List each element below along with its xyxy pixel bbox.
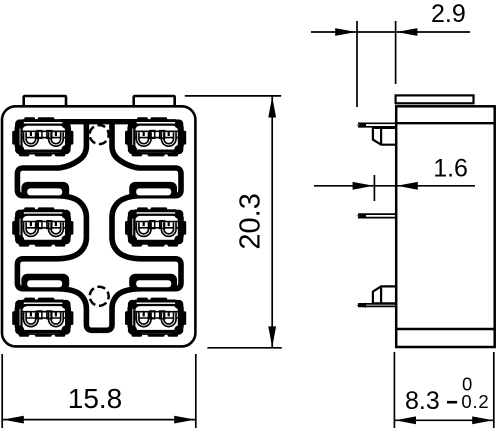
dim line vertical <box>271 97 273 348</box>
svg-text:2.9: 2.9 <box>431 0 466 28</box>
bottom pin boss inner line <box>380 286 382 303</box>
top pin <box>358 123 396 127</box>
ext line B (body face) <box>395 21 397 84</box>
right arrow <box>397 182 418 190</box>
top pin tip <box>356 123 366 128</box>
top pin boss inner line <box>380 128 382 145</box>
bottom pin tip <box>356 303 366 308</box>
top pin boss <box>373 128 396 145</box>
left tail <box>314 185 374 187</box>
ext line left <box>393 352 395 428</box>
middle pin <box>358 214 396 218</box>
arrow down <box>268 326 276 347</box>
dashed circle bottom <box>90 287 109 306</box>
slot bar gap1 left <box>21 182 69 199</box>
dim segment between ext lines <box>374 185 396 187</box>
arrow left <box>395 416 416 424</box>
bottom pin boss <box>373 286 396 303</box>
bottom band line <box>396 328 495 330</box>
left arrow <box>353 182 374 190</box>
ext line right <box>195 354 197 428</box>
slot bar gap2 right <box>129 274 177 291</box>
svg-text:15.8: 15.8 <box>68 383 123 414</box>
arrow left <box>3 416 24 424</box>
cavity cluster row3 right <box>125 298 186 337</box>
svg-text:0.2: 0.2 <box>461 391 489 412</box>
arrow right <box>174 416 195 424</box>
arrow right <box>472 416 493 424</box>
right tail with arrow at body face <box>397 185 475 187</box>
svg-text:8.3: 8.3 <box>405 387 440 415</box>
top tab left <box>24 96 66 106</box>
arrow up <box>268 97 276 118</box>
bottom pin <box>358 304 396 307</box>
inner wall right half (mirrored) <box>99 122 181 330</box>
slot bar gap2 left <box>21 274 69 291</box>
svg-text:20.3: 20.3 <box>235 193 267 249</box>
side body outline <box>396 106 495 347</box>
ext line left <box>1 354 3 428</box>
slot bar gap1 right <box>129 182 177 199</box>
top connecting band between top cavities <box>60 119 138 124</box>
ext line pin shoulder <box>373 175 375 201</box>
tolerance minus <box>447 401 457 404</box>
left tail <box>311 31 356 33</box>
ext line A (pin tip) <box>356 21 358 107</box>
dashed circle top <box>90 125 109 144</box>
inner wall left half <box>17 122 99 330</box>
cavity cluster row3 left <box>12 298 73 337</box>
cavity cluster row2 left <box>12 207 73 246</box>
connector body outline <box>2 106 195 346</box>
right tail <box>397 31 471 33</box>
top tab right <box>134 96 175 106</box>
middle pin tip <box>356 213 366 219</box>
ext line top <box>185 95 281 97</box>
cap parting line <box>396 122 495 124</box>
ext line right <box>493 352 495 428</box>
dim line <box>3 419 195 421</box>
cavity cluster row1 left <box>12 117 73 156</box>
cavity cluster row2 right <box>125 207 186 246</box>
cavity cluster row1 right <box>125 117 186 156</box>
top plate <box>396 95 474 103</box>
dim line <box>395 419 493 421</box>
left arrow <box>335 28 356 36</box>
dim segment between ext lines <box>357 31 396 33</box>
svg-text:1.6: 1.6 <box>433 155 468 183</box>
ext line bottom <box>207 347 281 349</box>
right arrow <box>396 28 417 36</box>
